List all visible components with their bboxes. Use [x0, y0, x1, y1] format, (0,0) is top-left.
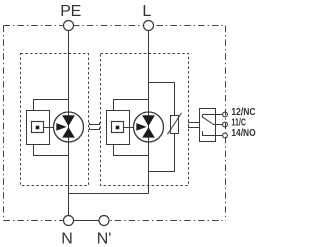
- spark gap arrester (module 2): [134, 112, 164, 142]
- terminal N: [64, 216, 74, 226]
- enclosure dash-dot border: [4, 26, 226, 221]
- terminal L: [144, 21, 154, 31]
- terminal PE: [64, 21, 74, 31]
- varistor: [168, 113, 182, 134]
- thermal disconnect device (module 2): [107, 100, 149, 156]
- contact terminal 12/NC: [223, 112, 228, 117]
- wire L down (vertical): [148, 31, 150, 194]
- svg-text:N': N': [97, 230, 112, 247]
- terminal N': [99, 216, 109, 226]
- plug-in connection between module 1 and module 2: [90, 123, 100, 130]
- plug-in connection to signalling contact: [189, 121, 200, 128]
- remote signalling changeover contact box: [200, 109, 223, 142]
- wire junction horizontal: [69, 193, 149, 195]
- thermal disconnect device (module 1): [27, 100, 69, 156]
- contact terminal 14/NO: [223, 133, 228, 138]
- svg-text:L: L: [142, 3, 151, 20]
- varistor branch wires: [149, 83, 175, 116]
- contact terminal 11/C: [223, 122, 228, 127]
- protection module box 1 (dashed): [21, 54, 89, 186]
- wire N to N': [69, 220, 105, 222]
- svg-text:14/NO: 14/NO: [231, 126, 255, 138]
- svg-text:N: N: [61, 230, 73, 247]
- protection module box 2 (dashed): [101, 54, 189, 186]
- wire PE to N (vertical): [68, 31, 70, 216]
- spark gap arrester (module 1): [54, 112, 84, 142]
- svg-text:PE: PE: [60, 3, 81, 20]
